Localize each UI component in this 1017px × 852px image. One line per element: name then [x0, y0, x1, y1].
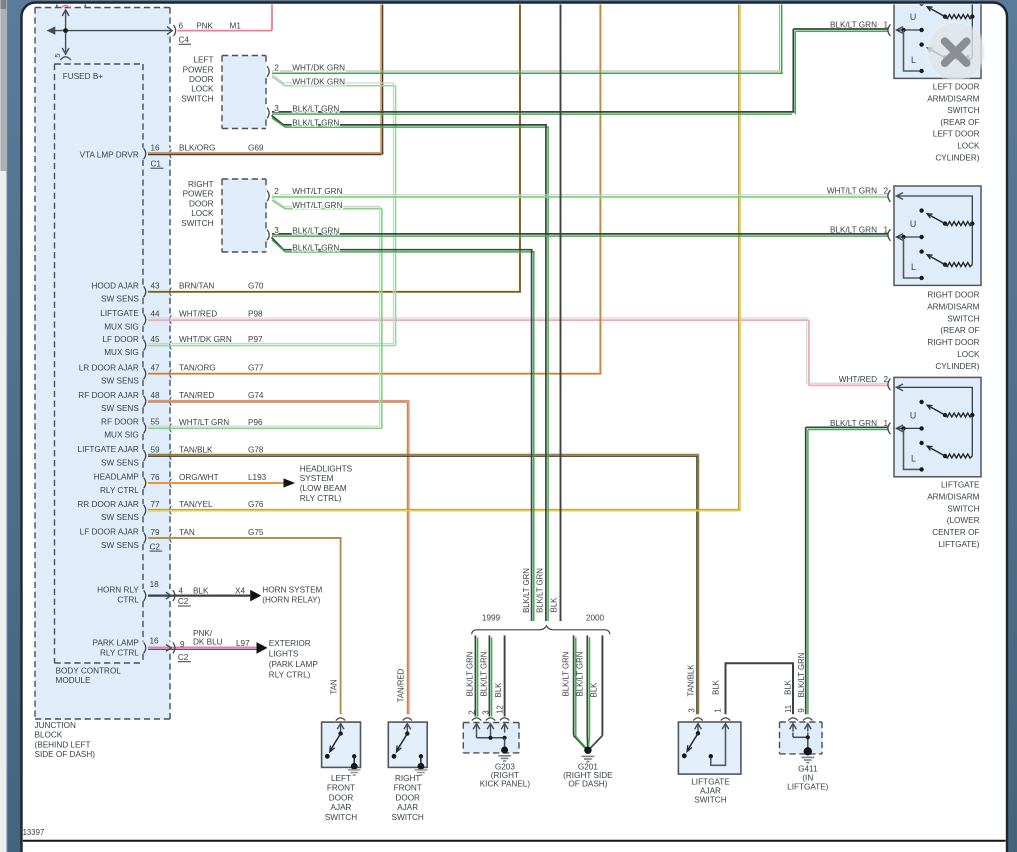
svg-text:BRN/TAN: BRN/TAN: [179, 282, 214, 291]
svg-text:2: 2: [884, 187, 889, 196]
svg-text:55: 55: [151, 418, 161, 427]
svg-text:RIGHT: RIGHT: [188, 180, 213, 189]
svg-text:BLK: BLK: [193, 587, 209, 596]
svg-text:59: 59: [151, 445, 161, 454]
svg-text:G75: G75: [248, 528, 264, 537]
svg-text:BLK/LT GRN: BLK/LT GRN: [576, 652, 585, 697]
svg-text:G77: G77: [248, 364, 264, 373]
svg-text:RLY CTRL): RLY CTRL): [269, 671, 311, 680]
svg-text:BLK: BLK: [784, 679, 793, 695]
svg-text:P97: P97: [248, 335, 263, 344]
svg-text:3: 3: [481, 710, 490, 714]
svg-text:L193: L193: [248, 473, 267, 482]
svg-text:BLK: BLK: [494, 682, 503, 698]
svg-text:4: 4: [179, 587, 184, 596]
svg-text:M1: M1: [230, 22, 242, 31]
svg-text:16: 16: [151, 144, 161, 153]
svg-text:LIFTGATE): LIFTGATE): [938, 540, 980, 549]
svg-text:BLK/LT GRN: BLK/LT GRN: [830, 419, 877, 428]
svg-text:(PARK LAMP: (PARK LAMP: [269, 660, 319, 669]
svg-text:43: 43: [151, 282, 161, 291]
svg-text:1999: 1999: [482, 614, 501, 623]
svg-text:MODULE: MODULE: [56, 676, 92, 685]
svg-text:2: 2: [274, 187, 279, 196]
svg-text:45: 45: [151, 335, 161, 344]
svg-text:9: 9: [797, 708, 806, 712]
svg-text:HOOD AJAR: HOOD AJAR: [91, 281, 138, 290]
svg-text:RIGHT DOOR: RIGHT DOOR: [927, 338, 979, 347]
svg-text:LIFTGATE): LIFTGATE): [787, 783, 829, 792]
svg-text:BLK/LT GRN: BLK/LT GRN: [292, 119, 339, 128]
svg-text:TAN/YEL: TAN/YEL: [179, 500, 213, 509]
svg-text:76: 76: [151, 473, 161, 482]
svg-text:(REAR OF: (REAR OF: [940, 326, 979, 335]
svg-text:9: 9: [180, 640, 185, 649]
svg-text:C2: C2: [178, 597, 189, 606]
svg-text:U: U: [910, 410, 916, 420]
svg-text:BLK: BLK: [550, 597, 559, 613]
svg-text:79: 79: [151, 528, 161, 537]
svg-text:RR DOOR AJAR: RR DOOR AJAR: [77, 500, 139, 509]
svg-text:1: 1: [884, 21, 889, 30]
svg-text:U: U: [910, 219, 916, 229]
svg-text:(IN: (IN: [802, 774, 813, 783]
svg-text:CYLINDER): CYLINDER): [935, 362, 979, 371]
svg-text:44: 44: [151, 309, 161, 318]
svg-text:MUX SIG: MUX SIG: [104, 348, 139, 357]
svg-text:TAN: TAN: [329, 679, 338, 694]
svg-text:HEADLIGHTS: HEADLIGHTS: [300, 465, 353, 474]
svg-text:1: 1: [884, 419, 889, 428]
svg-text:LIFTGATE AJAR: LIFTGATE AJAR: [78, 445, 139, 454]
svg-text:DOOR: DOOR: [189, 199, 214, 208]
svg-text:FRONT: FRONT: [327, 784, 355, 793]
svg-text:SWITCH: SWITCH: [947, 106, 979, 115]
svg-text:BLK/LT GRN: BLK/LT GRN: [830, 21, 877, 30]
svg-text:SWITCH: SWITCH: [181, 94, 213, 103]
svg-text:X4: X4: [235, 587, 245, 596]
svg-text:OF DASH): OF DASH): [568, 779, 607, 788]
svg-text:FUSED B+: FUSED B+: [63, 72, 103, 81]
svg-text:MUX SIG: MUX SIG: [104, 322, 139, 331]
svg-text:AJAR: AJAR: [397, 803, 418, 812]
svg-text:18: 18: [150, 580, 160, 589]
svg-text:BLOCK: BLOCK: [35, 731, 63, 740]
svg-text:L: L: [911, 453, 916, 463]
svg-text:TAN/BLK: TAN/BLK: [179, 445, 213, 454]
svg-text:HORN RLY: HORN RLY: [97, 586, 139, 595]
svg-text:CTRL: CTRL: [117, 595, 139, 604]
svg-text:WHT/RED: WHT/RED: [839, 375, 877, 384]
svg-text:(HORN RELAY): (HORN RELAY): [262, 595, 320, 604]
svg-text:SW SENS: SW SENS: [101, 513, 139, 522]
svg-text:LIFTGATE: LIFTGATE: [941, 481, 980, 490]
svg-text:POWER: POWER: [183, 65, 214, 74]
svg-text:3: 3: [274, 226, 279, 235]
svg-text:SW SENS: SW SENS: [101, 404, 139, 413]
svg-text:SWITCH: SWITCH: [181, 219, 213, 228]
svg-text:SWITCH: SWITCH: [694, 796, 726, 805]
svg-text:5: 5: [53, 53, 62, 57]
svg-text:JUNCTION: JUNCTION: [35, 721, 76, 730]
svg-text:LIFTGATE: LIFTGATE: [100, 309, 139, 318]
svg-text:DOOR: DOOR: [189, 75, 214, 84]
svg-text:LEFT: LEFT: [193, 56, 213, 65]
svg-text:BLK/LT GRN: BLK/LT GRN: [480, 652, 489, 697]
svg-text:RF DOOR: RF DOOR: [101, 418, 139, 427]
svg-text:LOCK: LOCK: [957, 350, 980, 359]
svg-text:G69: G69: [248, 144, 264, 153]
svg-text:TAN: TAN: [179, 528, 195, 537]
svg-text:LOCK: LOCK: [191, 85, 214, 94]
svg-text:SWITCH: SWITCH: [392, 813, 424, 822]
svg-text:SYSTEM: SYSTEM: [300, 474, 334, 483]
svg-text:RIGHT DOOR: RIGHT DOOR: [927, 291, 979, 300]
svg-text:DOOR: DOOR: [395, 793, 420, 802]
svg-text:3: 3: [687, 708, 696, 712]
svg-text:ARM/DISARM: ARM/DISARM: [927, 94, 979, 103]
svg-text:SW SENS: SW SENS: [101, 295, 139, 304]
svg-text:BLK/LT GRN: BLK/LT GRN: [797, 653, 806, 698]
svg-text:EXTERIOR: EXTERIOR: [269, 639, 311, 648]
svg-text:SIDE OF DASH): SIDE OF DASH): [35, 750, 96, 759]
svg-text:C2: C2: [150, 542, 161, 551]
svg-text:3: 3: [274, 104, 279, 113]
svg-text:BLK/LT GRN: BLK/LT GRN: [466, 652, 475, 697]
svg-text:DK BLU: DK BLU: [193, 638, 223, 647]
svg-text:BLK/LT GRN: BLK/LT GRN: [522, 568, 531, 613]
svg-text:LF DOOR AJAR: LF DOOR AJAR: [80, 528, 139, 537]
svg-text:U: U: [910, 12, 916, 22]
svg-text:WHT/LT GRN: WHT/LT GRN: [292, 201, 342, 210]
svg-text:LEFT: LEFT: [331, 774, 351, 783]
svg-text:11: 11: [784, 705, 793, 713]
svg-text:G411: G411: [798, 765, 818, 774]
svg-text:BODY CONTROL: BODY CONTROL: [56, 666, 122, 675]
svg-text:LF DOOR: LF DOOR: [102, 335, 138, 344]
svg-text:LIGHTS: LIGHTS: [269, 650, 299, 659]
svg-text:L97: L97: [236, 639, 250, 648]
svg-text:16: 16: [150, 636, 160, 645]
svg-text:SWITCH: SWITCH: [947, 504, 979, 513]
svg-text:RF DOOR AJAR: RF DOOR AJAR: [78, 391, 139, 400]
svg-text:BLK: BLK: [711, 679, 720, 695]
svg-text:DOOR: DOOR: [329, 793, 354, 802]
svg-text:TAN/RED: TAN/RED: [179, 391, 214, 400]
svg-text:SWITCH: SWITCH: [325, 813, 357, 822]
svg-text:RLY CTRL): RLY CTRL): [300, 494, 342, 503]
svg-text:G78: G78: [248, 445, 264, 454]
svg-text:LEFT DOOR: LEFT DOOR: [933, 83, 980, 92]
svg-text:G70: G70: [248, 282, 264, 291]
svg-text:SWITCH: SWITCH: [947, 314, 979, 323]
svg-text:PNK/: PNK/: [193, 629, 213, 638]
svg-text:C4: C4: [179, 36, 190, 45]
svg-text:BLK/ORG: BLK/ORG: [179, 144, 215, 153]
svg-text:LOCK: LOCK: [957, 142, 980, 151]
svg-text:POWER: POWER: [183, 190, 214, 199]
svg-text:KICK PANEL): KICK PANEL): [480, 779, 531, 788]
svg-text:L: L: [911, 55, 916, 65]
svg-text:WHT/DK GRN: WHT/DK GRN: [292, 63, 345, 72]
svg-text:2000: 2000: [586, 614, 605, 623]
svg-text:HEADLAMP: HEADLAMP: [94, 473, 140, 482]
svg-text:BLK/LT GRN: BLK/LT GRN: [561, 652, 570, 697]
svg-text:P98: P98: [248, 310, 263, 319]
svg-text:LR DOOR AJAR: LR DOOR AJAR: [79, 363, 139, 372]
svg-text:P96: P96: [248, 418, 263, 427]
svg-text:13397: 13397: [23, 828, 45, 837]
svg-text:RLY CTRL: RLY CTRL: [100, 486, 139, 495]
svg-text:MUX SIG: MUX SIG: [104, 431, 139, 440]
svg-text:6: 6: [179, 22, 184, 31]
svg-text:BLK/LT GRN: BLK/LT GRN: [830, 226, 877, 235]
svg-text:BLK/LT GRN: BLK/LT GRN: [536, 568, 545, 613]
svg-text:G74: G74: [248, 391, 264, 400]
svg-text:VTA LMP DRVR: VTA LMP DRVR: [80, 151, 139, 160]
svg-text:BLK/LT GRN: BLK/LT GRN: [292, 226, 339, 235]
svg-text:AJAR: AJAR: [331, 803, 352, 812]
svg-text:(REAR OF: (REAR OF: [940, 118, 979, 127]
svg-text:SW SENS: SW SENS: [101, 377, 139, 386]
svg-text:TAN/BLK: TAN/BLK: [687, 664, 696, 697]
svg-text:SW SENS: SW SENS: [101, 458, 139, 467]
svg-text:PNK: PNK: [196, 22, 213, 31]
svg-text:1: 1: [884, 226, 889, 235]
svg-text:WHT/LT GRN: WHT/LT GRN: [292, 187, 342, 196]
svg-text:AJAR: AJAR: [700, 787, 721, 796]
svg-text:WHT/RED: WHT/RED: [179, 310, 217, 319]
svg-text:12: 12: [495, 705, 504, 714]
svg-text:(BEHIND LEFT: (BEHIND LEFT: [35, 740, 91, 749]
svg-text:2: 2: [884, 375, 889, 384]
svg-text:TAN/RED: TAN/RED: [397, 668, 406, 702]
svg-text:SW SENS: SW SENS: [101, 541, 139, 550]
svg-text:47: 47: [151, 364, 161, 373]
svg-text:LOCK: LOCK: [191, 209, 214, 218]
svg-text:RLY CTRL: RLY CTRL: [100, 649, 139, 658]
svg-text:LIFTGATE: LIFTGATE: [691, 778, 730, 787]
svg-text:2: 2: [274, 63, 279, 72]
svg-text:FRONT: FRONT: [394, 784, 422, 793]
svg-text:ORG/WHT: ORG/WHT: [179, 473, 219, 482]
svg-text:BLK/LT GRN: BLK/LT GRN: [292, 104, 339, 113]
svg-text:WHT/DK GRN: WHT/DK GRN: [179, 335, 232, 344]
svg-text:1: 1: [714, 708, 723, 712]
svg-text:CYLINDER): CYLINDER): [935, 153, 979, 162]
svg-text:HORN SYSTEM: HORN SYSTEM: [262, 586, 322, 595]
svg-text:WHT/LT GRN: WHT/LT GRN: [179, 418, 229, 427]
svg-text:ARM/DISARM: ARM/DISARM: [927, 302, 979, 311]
svg-text:(LOWER: (LOWER: [947, 516, 980, 525]
svg-text:ARM/DISARM: ARM/DISARM: [927, 492, 979, 501]
svg-text:L: L: [911, 262, 916, 272]
svg-text:TAN/ORG: TAN/ORG: [179, 364, 216, 373]
svg-text:CENTER OF: CENTER OF: [932, 528, 979, 537]
svg-text:(LOW BEAM: (LOW BEAM: [300, 484, 347, 493]
svg-text:WHT/DK GRN: WHT/DK GRN: [292, 78, 345, 87]
svg-text:PARK LAMP: PARK LAMP: [93, 638, 140, 647]
svg-text:BLK: BLK: [590, 682, 599, 698]
svg-text:RIGHT: RIGHT: [395, 774, 420, 783]
svg-text:G76: G76: [248, 500, 264, 509]
svg-text:2: 2: [467, 710, 476, 714]
svg-text:WHT/LT GRN: WHT/LT GRN: [827, 187, 877, 196]
svg-text:77: 77: [151, 500, 161, 509]
svg-text:C1: C1: [151, 160, 162, 169]
svg-text:BLK/LT GRN: BLK/LT GRN: [292, 243, 339, 252]
svg-text:C2: C2: [178, 653, 189, 662]
svg-text:LEFT DOOR: LEFT DOOR: [933, 130, 980, 139]
svg-text:48: 48: [151, 391, 161, 400]
